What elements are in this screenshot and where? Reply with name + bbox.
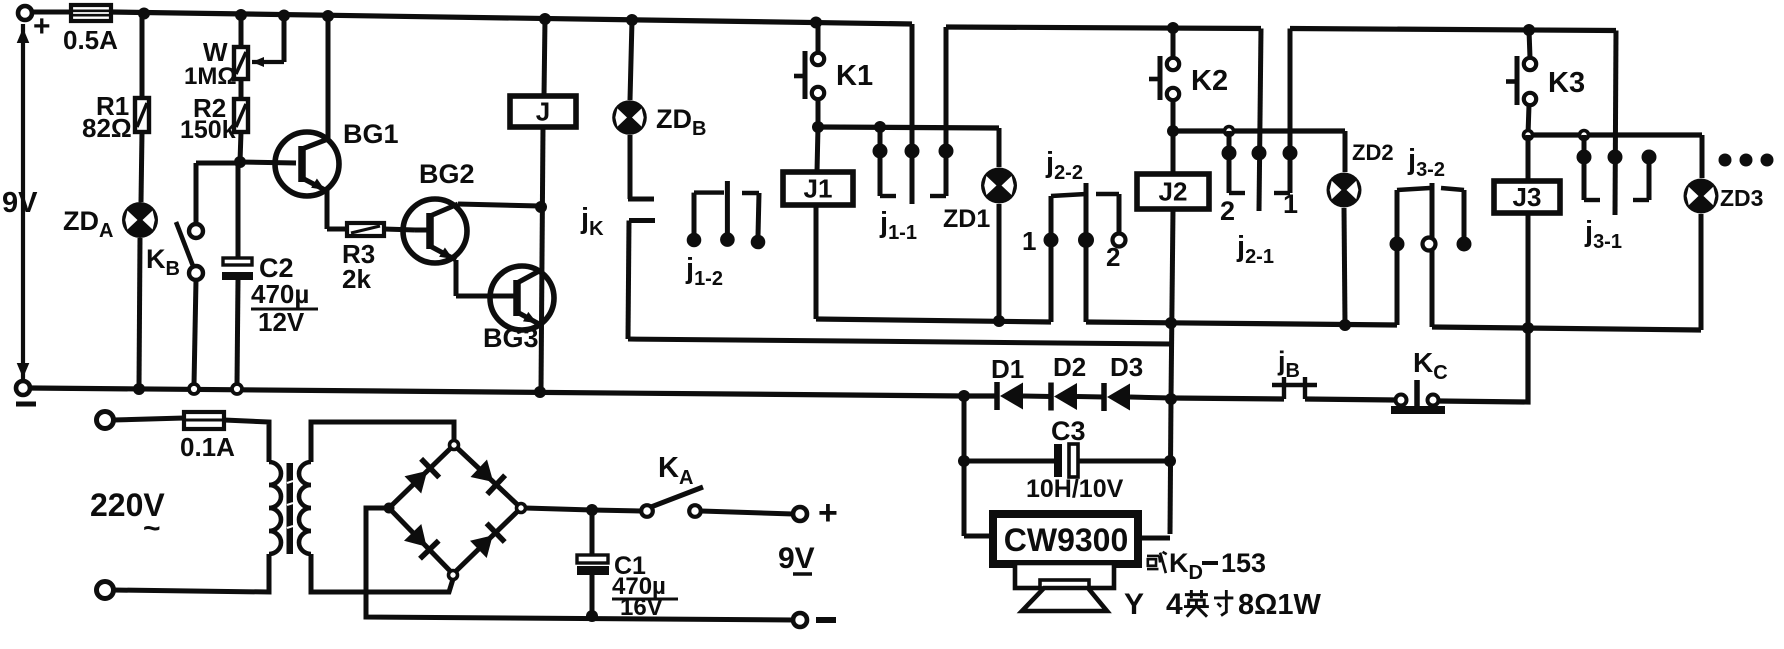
svg-text:1: 1 <box>1022 226 1036 256</box>
svg-text:470µ: 470µ <box>251 279 309 309</box>
capacitor C1 470µ 16V <box>590 510 595 555</box>
wire stage2 rail <box>1173 128 1345 133</box>
wire bottom rail <box>30 388 997 396</box>
terminal + 9V output <box>793 507 807 521</box>
transistor BG1 <box>275 132 339 196</box>
terminal − 9V output <box>793 613 807 627</box>
svg-text:D1: D1 <box>991 354 1024 384</box>
relay coil J2 <box>1171 131 1176 174</box>
wire transformer secondary bottom <box>311 554 453 592</box>
terminal 220V bottom <box>97 582 114 599</box>
relay coil J3 <box>1526 135 1531 181</box>
svg-text:BG3: BG3 <box>483 323 539 353</box>
lamp ZDA <box>122 202 158 238</box>
pushbutton K1 <box>816 23 821 53</box>
svg-text:0.5A: 0.5A <box>63 25 118 55</box>
svg-text:K3: K3 <box>1548 67 1585 99</box>
node BG1 base junction <box>234 156 246 168</box>
svg-text:~: ~ <box>143 512 161 545</box>
contact j2-2 <box>1049 196 1054 322</box>
wire stage1 rail <box>818 127 999 128</box>
node continuation dots <box>1719 154 1732 167</box>
svg-text:12V: 12V <box>258 307 305 337</box>
wire stage1 bottom <box>816 319 1051 322</box>
fuse 0.1A <box>113 418 184 420</box>
contact jK <box>628 197 654 202</box>
lamp ZDB <box>630 20 632 100</box>
label 或KD-153 <box>1147 552 1167 573</box>
svg-text:9V: 9V <box>2 187 38 219</box>
lamp ZD2 <box>1343 131 1348 172</box>
wire bridge negative to minus rail <box>366 508 795 620</box>
switch KA <box>641 505 653 517</box>
svg-text:K2: K2 <box>1191 65 1228 97</box>
wire fuse to transformer primary <box>224 420 269 462</box>
resistor R1 82Ω <box>140 14 145 98</box>
svg-text:153: 153 <box>1221 548 1266 578</box>
terminal + (9V positive input) <box>18 6 32 20</box>
svg-text:D2: D2 <box>1053 352 1086 382</box>
switch KC <box>1396 395 1407 406</box>
svg-text:2k: 2k <box>342 264 371 294</box>
lamp ZD1 <box>997 128 1002 167</box>
svg-text:ZD1: ZD1 <box>943 205 990 233</box>
svg-text:4: 4 <box>1166 588 1183 621</box>
speaker Y <box>1015 563 1114 588</box>
relay coil J1 <box>817 127 818 172</box>
svg-text:J2: J2 <box>1159 177 1188 207</box>
svg-text:+: + <box>33 10 51 43</box>
svg-text:ZD3: ZD3 <box>1720 185 1763 211</box>
wire jB to KC <box>1305 399 1396 400</box>
wire stage3 rail <box>1528 132 1702 137</box>
contact j1-2 <box>694 190 724 194</box>
pushbutton K2 <box>1171 28 1176 58</box>
fuse 0.5A <box>32 10 71 15</box>
svg-text:ZD2: ZD2 <box>1352 140 1394 165</box>
svg-text:1MΩ: 1MΩ <box>184 63 237 90</box>
svg-text:0.1A: 0.1A <box>180 432 235 462</box>
svg-text:BG1: BG1 <box>343 119 399 149</box>
svg-text:J1: J1 <box>804 174 833 204</box>
terminal − (9V negative input) <box>16 381 30 395</box>
svg-text:16V: 16V <box>620 594 663 621</box>
junction dots on top rail <box>138 8 150 20</box>
resistor R2 150k <box>239 79 244 99</box>
lamp ZD3 <box>1700 135 1705 178</box>
terminal 220V top <box>97 412 114 429</box>
transformer T <box>269 462 281 485</box>
wire rail2 <box>946 27 1261 29</box>
wire KC up to stage3 bottom <box>1439 328 1528 402</box>
diode D1 <box>958 390 970 402</box>
contact j3-1 <box>1615 31 1616 216</box>
wire diode line to jB <box>1171 398 1284 399</box>
wire stage2 bottom <box>1086 322 1397 325</box>
switch KB <box>196 161 240 166</box>
svg-text:BG2: BG2 <box>419 159 475 189</box>
svg-text:D3: D3 <box>1110 352 1143 382</box>
wire rail3 <box>1290 29 1616 31</box>
bridge rectifier diodes <box>389 445 454 508</box>
resistor R3 2k <box>327 227 347 232</box>
svg-text:150k: 150k <box>180 116 236 144</box>
svg-text:2: 2 <box>1220 196 1235 226</box>
voltage arrow 9V <box>21 24 25 382</box>
wire C3 left vertical <box>962 396 967 536</box>
wire stage3 bottom <box>1432 327 1701 330</box>
IC CW9300 <box>964 534 994 539</box>
contact jB <box>1282 377 1286 399</box>
svg-text:10H/10V: 10H/10V <box>1026 475 1124 503</box>
wire C3 right vertical <box>1170 399 1171 534</box>
potentiometer W 1MΩ <box>239 16 244 47</box>
svg-text:CW9300: CW9300 <box>1004 522 1129 558</box>
wire transformer secondary top <box>311 422 454 462</box>
relay coil J <box>544 19 545 96</box>
transistor BG2 <box>403 199 467 263</box>
capacitor C2 470µ 12V <box>236 163 241 258</box>
contact j1-1 <box>910 24 915 204</box>
svg-text:J3: J3 <box>1513 182 1542 212</box>
svg-text:+: + <box>818 494 838 532</box>
svg-text:8Ω1W: 8Ω1W <box>1238 589 1322 621</box>
capacitor C3 10H/10V <box>964 459 1054 464</box>
svg-text:82Ω: 82Ω <box>82 113 132 143</box>
diode D2 <box>1048 383 1054 411</box>
pushbutton K3 <box>1529 30 1530 58</box>
svg-text:9V: 9V <box>778 542 815 575</box>
contact j2-1 <box>1259 29 1261 212</box>
wire jK to speaker feed <box>628 339 1171 344</box>
svg-text:J: J <box>536 97 550 127</box>
wire top rail <box>111 12 912 24</box>
svg-text:2: 2 <box>1106 242 1120 272</box>
svg-text:C3: C3 <box>1051 416 1086 446</box>
diode D3 <box>1101 383 1107 411</box>
wire bridge positive <box>525 508 641 511</box>
svg-text:K1: K1 <box>836 60 873 92</box>
svg-text:1: 1 <box>1283 189 1298 219</box>
contact j3-2 <box>1395 190 1400 325</box>
wire 220V bottom to transformer <box>113 554 269 592</box>
transistor BG3 <box>490 266 554 330</box>
svg-text:Y: Y <box>1124 588 1144 621</box>
